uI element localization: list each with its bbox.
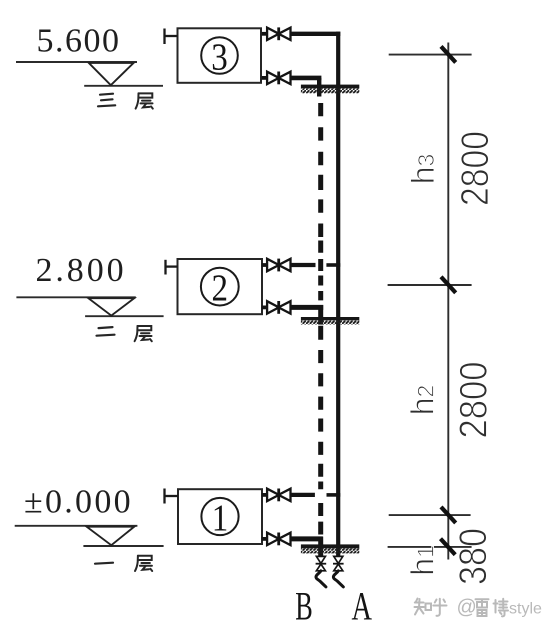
svg-text:±0.000: ±0.000 [24,483,133,520]
svg-text:3: 3 [211,37,228,79]
svg-text:2: 2 [212,268,229,310]
svg-text:h2: h2 [404,385,440,416]
svg-text:@: @ [457,597,477,619]
svg-text:A: A [352,584,373,629]
svg-text:1: 1 [212,498,229,540]
svg-text:B: B [295,584,313,629]
svg-text:5.600: 5.600 [37,22,121,59]
svg-text:2800: 2800 [454,131,497,206]
svg-text:h1: h1 [404,545,440,576]
svg-text:style: style [509,601,542,618]
svg-text:2.800: 2.800 [36,252,127,289]
svg-text:2800: 2800 [452,362,495,439]
svg-text:h3: h3 [405,154,441,185]
svg-text:380: 380 [452,528,495,585]
